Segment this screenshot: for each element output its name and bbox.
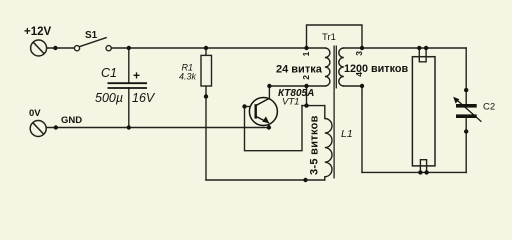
wire: L1 lead down to coil bbox=[324, 106, 326, 119]
wire: C1 branch upper bbox=[128, 48, 130, 83]
lamp top filament bbox=[419, 48, 426, 62]
variable capacitor C2 bbox=[453, 97, 481, 122]
wire: bridge over Tr1 connecting pin1 node to pin3 node bbox=[307, 25, 363, 48]
node: pin4 corner bbox=[360, 84, 364, 88]
svg-text:S1: S1 bbox=[85, 30, 98, 41]
node: R1 bottom bbox=[204, 94, 208, 98]
wire: L1 coil bottom to bottom wire bbox=[324, 177, 326, 180]
wire: L1 top lead horizontal bbox=[302, 105, 325, 107]
transformer Tr1 secondary winding bbox=[339, 48, 344, 86]
svg-text:16V: 16V bbox=[132, 91, 156, 105]
svg-text:0V: 0V bbox=[29, 108, 41, 119]
wire: GND rail bbox=[46, 127, 269, 129]
node: C2 bottom lead bbox=[464, 129, 468, 133]
node: bottom wire dot bbox=[303, 178, 307, 182]
svg-text:GND: GND bbox=[61, 115, 82, 126]
svg-text:VT1: VT1 bbox=[282, 97, 299, 108]
wire: emitter vertical to GND bbox=[268, 123, 270, 128]
node: lamp top filament right bbox=[424, 46, 428, 50]
node: C1 top bbox=[127, 46, 131, 50]
svg-text:1: 1 bbox=[301, 51, 311, 56]
node: bridge left / pin1 bbox=[304, 46, 308, 50]
node: lamp top filament left bbox=[417, 46, 421, 50]
node: lamp bottom filament right bbox=[424, 170, 428, 174]
node: base bbox=[242, 104, 246, 108]
wire: collector lead (pin2 lead) bbox=[269, 85, 325, 87]
svg-text:L1: L1 bbox=[341, 128, 353, 140]
wire: C1 branch lower bbox=[128, 88, 130, 128]
node: R1 top bbox=[204, 46, 208, 50]
node: lamp bottom filament left bbox=[418, 170, 422, 174]
switch S1 bbox=[74, 37, 111, 50]
svg-text:24 витка: 24 витка bbox=[276, 63, 323, 75]
node: C2 top lead bbox=[464, 88, 468, 92]
terminal 0V bbox=[30, 121, 46, 137]
node: emitter at GND bbox=[267, 125, 271, 129]
wire: C2 column top bbox=[465, 48, 467, 104]
svg-text:3-5 витков: 3-5 витков bbox=[309, 115, 321, 175]
fluorescent lamp tube bbox=[412, 57, 435, 166]
node: collector / pin2 bbox=[267, 84, 271, 88]
wire: C2 column bottom bbox=[465, 118, 467, 172]
svg-text:500µ: 500µ bbox=[95, 91, 123, 105]
node: pin2 lead branch bbox=[304, 84, 308, 88]
svg-text:3: 3 bbox=[354, 51, 364, 56]
svg-text:+12V: +12V bbox=[24, 26, 52, 38]
node: +12V rail dot bbox=[53, 46, 57, 50]
transistor VT1 bbox=[249, 98, 277, 126]
node: C1 bottom bbox=[127, 125, 131, 129]
transformer core (long line shared with L1) bbox=[333, 46, 335, 179]
wire: bottom-left wire (base net) bbox=[206, 179, 325, 181]
svg-text:C2: C2 bbox=[483, 102, 495, 113]
svg-text:Tr1: Tr1 bbox=[322, 32, 336, 43]
svg-text:2: 2 bbox=[301, 75, 311, 80]
svg-text:1200 витков: 1200 витков bbox=[344, 63, 408, 75]
node: GND at terminal bbox=[54, 125, 58, 129]
wire: collector vertical bbox=[268, 86, 270, 98]
node: bridge right / pin3 bbox=[360, 46, 364, 50]
transformer Tr1 primary winding bbox=[325, 48, 330, 86]
wire: bottom-right rail bbox=[362, 171, 466, 173]
wire: base lead into transistor bbox=[245, 106, 257, 108]
wire: R1 bottom lead down to bottom wire bbox=[205, 86, 207, 180]
lamp bottom filament bbox=[420, 160, 426, 173]
wire: secondary pin4 lead bbox=[344, 86, 362, 172]
svg-text:C1: C1 bbox=[101, 66, 117, 80]
wire: pin2 to L1 lead vertical bbox=[306, 86, 308, 106]
inductor L1 bbox=[325, 119, 332, 177]
terminal +12V bbox=[31, 40, 47, 56]
svg-text:+: + bbox=[133, 69, 140, 83]
transformer core short line bbox=[335, 46, 337, 89]
wire: R1 top lead bbox=[205, 48, 207, 55]
resistor R1 bbox=[201, 55, 212, 86]
node: L1 lead junction bbox=[304, 103, 308, 107]
capacitor C1 bbox=[108, 83, 148, 88]
wire: base box routing bbox=[245, 106, 303, 151]
svg-text:4.3k: 4.3k bbox=[179, 72, 197, 82]
wire: top rail transformer secondary to top-right corner bbox=[344, 47, 466, 49]
wire: +12V terminal to switch bbox=[47, 47, 75, 49]
wire: top rail from switch to transformer primary bbox=[111, 47, 325, 49]
